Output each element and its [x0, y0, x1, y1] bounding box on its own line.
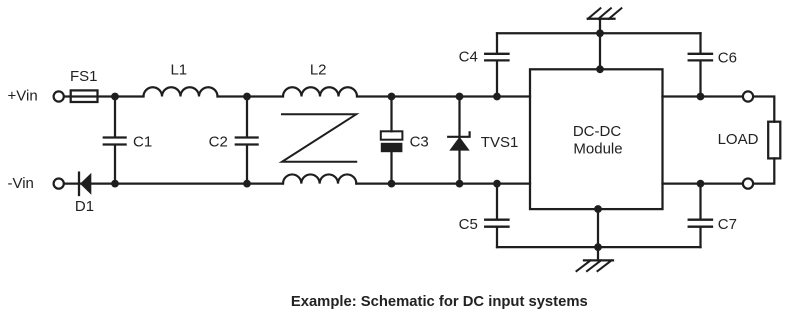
svg-text:FS1: FS1 — [70, 68, 98, 85]
svg-text:D1: D1 — [75, 198, 94, 215]
svg-text:+Vin: +Vin — [8, 88, 38, 105]
svg-text:C4: C4 — [459, 49, 478, 66]
svg-text:Module: Module — [573, 140, 622, 157]
svg-text:TVS1: TVS1 — [481, 134, 519, 151]
svg-text:DC-DC: DC-DC — [573, 123, 621, 140]
svg-text:-Vin: -Vin — [8, 175, 34, 192]
svg-text:C2: C2 — [209, 133, 228, 150]
svg-text:C7: C7 — [718, 216, 737, 233]
svg-text:LOAD: LOAD — [718, 131, 759, 148]
svg-text:C5: C5 — [459, 216, 478, 233]
svg-text:C6: C6 — [718, 50, 737, 67]
svg-text:C1: C1 — [133, 133, 152, 150]
svg-text:L2: L2 — [310, 62, 327, 79]
svg-text:Example: Schematic for DC inpu: Example: Schematic for DC input systems — [291, 294, 588, 310]
svg-text:L1: L1 — [170, 62, 187, 79]
svg-text:C3: C3 — [410, 133, 429, 150]
